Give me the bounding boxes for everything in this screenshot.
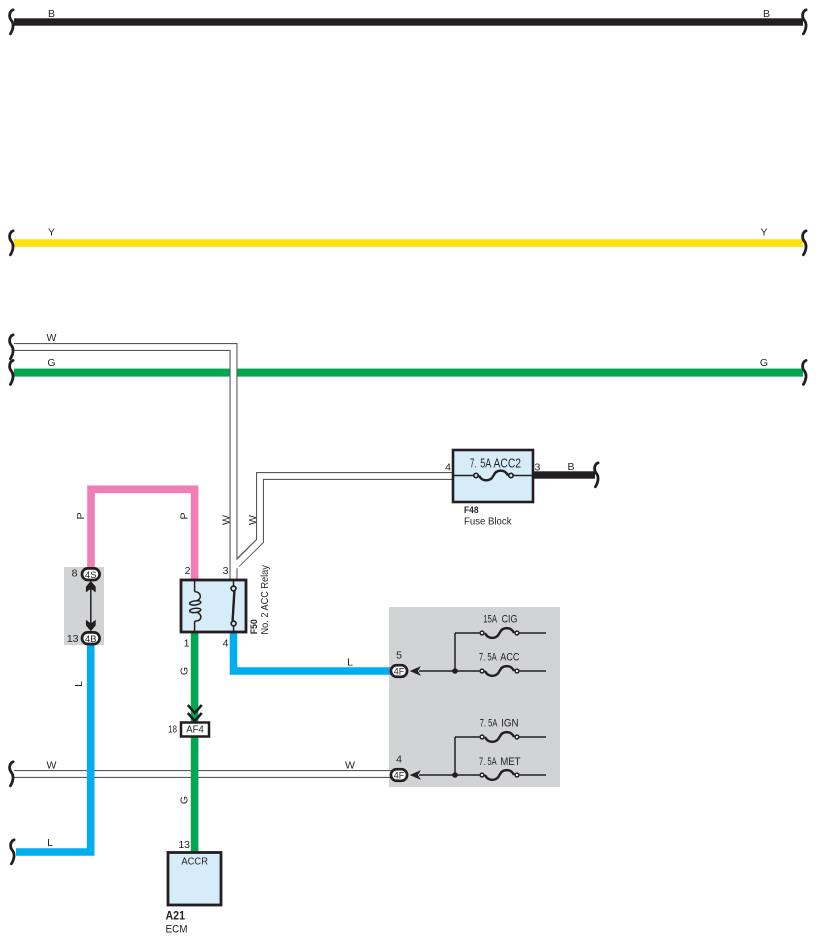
relay coil loop 2 [189,608,201,614]
svg-text:3: 3 [223,565,229,577]
break left of W bus [10,335,13,359]
svg-text:G: G [179,796,191,804]
wire W bus from left turning down to relay pin 3 (outline) [14,347,234,580]
svg-text:B: B [567,461,574,473]
svg-text:B: B [763,8,770,20]
svg-text:IGN: IGN [501,718,518,730]
svg-text:4F: 4F [394,667,405,678]
connector 4S oval [82,568,100,580]
7.5A IGN right circle [515,735,519,739]
svg-text:ACC: ACC [500,652,519,664]
F48 fuse curve [479,471,508,481]
svg-text:4B: 4B [85,634,97,645]
break left of bus Y [10,231,13,255]
wire W bottom white fill [14,771,392,777]
svg-text:G: G [47,357,55,369]
svg-text:MET: MET [500,756,521,768]
relay switch bottom contact [231,621,236,626]
svg-text:7. 5A: 7. 5A [480,718,498,730]
7.5A MET right circle [515,773,519,777]
svg-text:W: W [247,515,259,525]
arrowhead into 4F top [410,666,421,676]
wire W bus white fill [14,347,234,580]
relay switch top contact [231,586,236,591]
break right of bus Y [803,231,806,255]
fuse row 15A CIG line [455,632,479,634]
7.5A IGN left circle [480,735,484,739]
svg-text:L: L [73,681,85,687]
svg-text:5A: 5A [480,456,491,470]
connector AF4 chevron 1 [188,705,202,713]
svg-text:13: 13 [67,633,79,645]
break right of B wire [595,463,598,487]
svg-text:3: 3 [535,462,541,474]
relay coil loop 1 [189,600,201,606]
arrowhead into 4F bottom [410,770,421,780]
svg-text:F50: F50 [249,619,260,634]
connector AF4 chevron 2 [188,713,202,721]
svg-text:B: B [48,8,55,20]
15A CIG left circle [480,631,484,635]
relay coil top lead [194,581,196,592]
fuse row 7.5A IGN line [455,736,479,738]
svg-text:13: 13 [178,839,190,851]
svg-text:W: W [47,760,57,772]
break left of bus G [10,360,13,384]
svg-text:W: W [220,515,232,525]
svg-text:A21: A21 [166,911,186,923]
7.5A MET left circle [480,773,484,777]
15A CIG right circle [515,631,519,635]
fuse row 7.5A ACC line [419,670,479,672]
wire P (pink) from 4S up over to relay pin 2 [91,489,195,581]
svg-text:G: G [760,357,768,369]
relay switch bottom stub [233,626,235,631]
svg-text:4: 4 [445,462,451,474]
svg-text:F48: F48 [464,505,479,516]
bus G (green) [14,369,803,377]
svg-text:7. 5A: 7. 5A [479,756,497,768]
svg-text:7. 5A: 7. 5A [479,652,497,664]
svg-text:4: 4 [223,638,229,650]
svg-text:7.: 7. [470,456,477,470]
svg-text:P: P [75,512,87,519]
wire W F48 white fill [234,476,454,578]
connector 4B oval [82,632,100,644]
break left of bottom W wire [10,762,13,786]
7.5A IGN fuse curve [485,732,514,742]
fuse block F48 box [453,450,533,502]
svg-text:2: 2 [185,565,191,577]
15A CIG fuse curve [485,628,514,638]
relay coil bottom lead [194,621,196,631]
junction dot ACC [452,668,458,674]
svg-text:ACCR: ACCR [181,856,208,868]
break right of bus B [803,10,806,34]
F48 fuse left terminal circle [474,473,478,477]
svg-text:G: G [179,667,191,675]
svg-text:5: 5 [396,650,402,662]
F48 fuse internal line [453,475,473,477]
7.5A MET fuse curve [485,770,514,780]
relay switch blade [233,591,235,621]
junction dot MET [452,772,458,778]
svg-text:ACC2: ACC2 [494,456,522,470]
svg-text:18: 18 [168,724,177,736]
svg-text:1: 1 [184,638,190,650]
connector AF4 box [181,723,209,737]
svg-text:No. 2 ACC Relay: No. 2 ACC Relay [260,565,271,634]
svg-text:Y: Y [760,227,767,239]
break right of bus G [803,360,806,384]
wire W from fuse F48 pin 4 down to relay pin 3 (outline) [237,476,454,564]
break at end of bottom L wire [11,840,14,864]
wire B (black) from F48 pin 3 to break [533,471,595,478]
relay coil lower bulge [195,612,201,621]
wire G (green) from relay pin 1 down to ECM ACCR [191,630,199,854]
svg-text:L: L [347,657,353,669]
svg-text:L: L [47,837,53,849]
7.5A ACC left circle [480,669,484,673]
F48 fuse right terminal circle [509,473,513,477]
wire W bottom horizontal to 4F (outline) [14,770,392,778]
svg-text:CIG: CIG [502,613,518,625]
twisted pair arrow between 4S and 4B [90,588,92,624]
fuse row 7.5A MET line [419,774,479,776]
svg-text:ECM: ECM [166,924,188,936]
vertical link IGN-MET [454,737,456,775]
7.5A ACC fuse curve [485,666,514,676]
wire L (blue) from relay pin 4 down and right to 4F pin 5 [234,630,392,671]
svg-text:4: 4 [396,754,402,766]
svg-text:P: P [179,512,191,519]
gray box: right fuse group [389,607,560,787]
svg-text:4F: 4F [394,771,405,782]
relay F50 box [181,580,246,632]
svg-text:W: W [345,760,355,772]
connector 4F bottom oval [391,769,407,781]
arrowhead down [86,620,96,632]
arrowhead up [86,581,96,593]
svg-text:W: W [47,332,57,344]
svg-text:Y: Y [48,227,55,239]
svg-text:8: 8 [72,568,78,580]
svg-text:15A: 15A [483,613,497,625]
7.5A ACC right circle [515,669,519,673]
bus B (black, top) [14,18,803,25]
relay coil upper bulge [195,592,201,601]
wire L (blue) from 4B down, left to break at bottom [16,644,91,852]
break left of bus B [10,10,13,34]
gray box: left connector group 4S/4B [64,567,104,645]
vertical link CIG-ACC [454,633,456,671]
svg-text:Fuse Block: Fuse Block [464,516,512,528]
svg-text:AF4: AF4 [186,725,204,736]
connector 4F top oval [391,665,407,677]
svg-text:4S: 4S [85,570,97,581]
ECM box A21 [168,853,221,906]
relay switch top stub [233,581,235,586]
bus Y (yellow) [14,239,803,247]
